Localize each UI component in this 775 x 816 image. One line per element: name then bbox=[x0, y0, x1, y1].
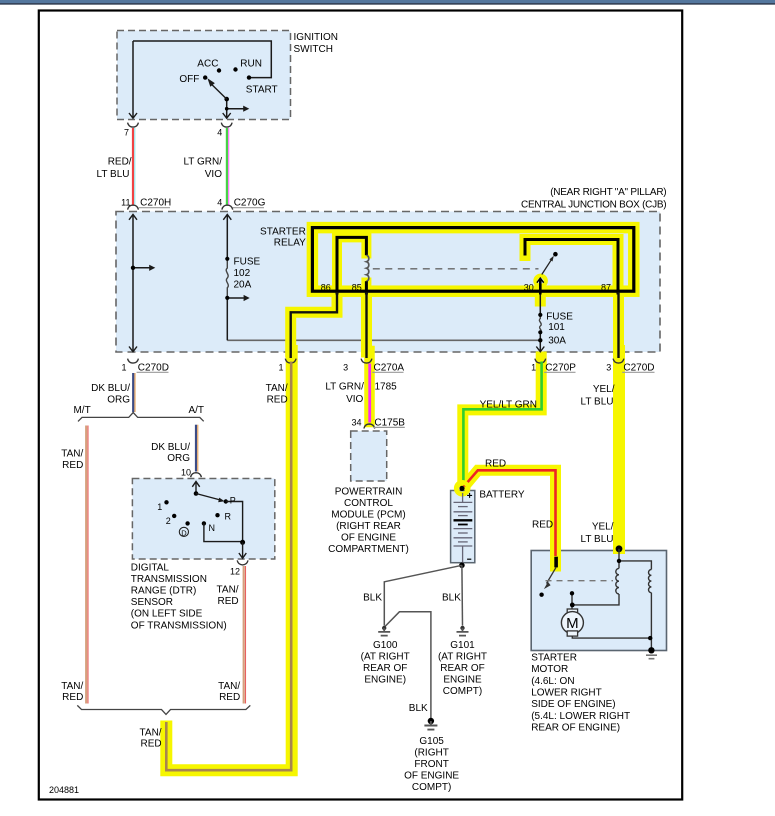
svg-text:MOTOR: MOTOR bbox=[531, 664, 568, 675]
wire BLK: battery neg to G101 bbox=[461, 565, 464, 625]
wire: branch arrow at junction bbox=[133, 267, 150, 269]
battery plates bbox=[454, 493, 473, 563]
wire: pin 87 to 3 C270D bbox=[617, 292, 619, 358]
svg-text:REAR OF: REAR OF bbox=[440, 663, 484, 674]
contact 2 bbox=[172, 514, 176, 518]
motor M bbox=[561, 612, 583, 634]
central junction box (CJB) bbox=[116, 212, 660, 353]
highlight: YEL/LT GRN wire C270P to battery bbox=[463, 357, 541, 482]
svg-text:COMPARTMENT): COMPARTMENT) bbox=[328, 544, 409, 555]
svg-text:DK BLU/: DK BLU/ bbox=[151, 442, 190, 453]
arrowhead: pin 10 entry up bbox=[192, 482, 199, 487]
contact ACC bbox=[217, 68, 221, 72]
relay pin 30 stub with arrow bbox=[539, 280, 542, 295]
svg-text:204881: 204881 bbox=[49, 785, 79, 795]
switch pivot bbox=[224, 97, 229, 102]
starter solenoid wiring bbox=[572, 549, 651, 650]
svg-text:1785: 1785 bbox=[375, 381, 398, 392]
svg-text:87: 87 bbox=[601, 282, 611, 292]
arrowhead: fuse102 branch right bbox=[244, 295, 250, 301]
wire TAN/RED (M/T branch) bbox=[85, 426, 87, 704]
svg-text:ACC: ACC bbox=[197, 59, 218, 70]
connector 12 (DTR exit, smile) bbox=[237, 560, 248, 565]
wire: junction to pin 12 with arrow bbox=[242, 542, 244, 557]
relay actuation dashed link bbox=[373, 268, 539, 270]
highlight: battery positive ring bbox=[457, 483, 468, 494]
svg-text:30: 30 bbox=[524, 282, 534, 292]
brace: M/T / A/T split bbox=[78, 413, 204, 422]
solenoid open contact bbox=[539, 593, 543, 597]
highlight: pin 85 wire to 3 C270A bbox=[361, 292, 372, 352]
svg-text:SENSOR: SENSOR bbox=[131, 597, 173, 608]
svg-text:TAN/: TAN/ bbox=[266, 383, 288, 394]
node: junction fuse101 output bbox=[538, 338, 542, 342]
svg-text:1: 1 bbox=[278, 362, 283, 372]
svg-text:LT BLU: LT BLU bbox=[581, 397, 614, 408]
arrowhead: CJB exits down bbox=[129, 347, 137, 352]
svg-text:34: 34 bbox=[351, 417, 361, 427]
wire: pin 86 to connector 1 bbox=[291, 292, 337, 358]
svg-text:YEL/LT GRN: YEL/LT GRN bbox=[480, 399, 537, 410]
arrowhead: pivot branch right bbox=[243, 106, 249, 112]
svg-text:G101: G101 bbox=[450, 640, 475, 651]
svg-text:C270A: C270A bbox=[374, 362, 405, 373]
svg-text:D: D bbox=[181, 528, 187, 537]
contact OFF bbox=[203, 75, 207, 79]
svg-text:(NEAR RIGHT "A" PILLAR): (NEAR RIGHT "A" PILLAR) bbox=[550, 187, 666, 198]
relay movable contact arm bbox=[542, 260, 552, 275]
solenoid dashed link bbox=[546, 580, 614, 582]
relay switch section frame bbox=[525, 240, 618, 295]
wire: pivot branch arrow right bbox=[227, 108, 244, 110]
motor brush bottom bbox=[567, 631, 577, 636]
svg-text:COMPT): COMPT) bbox=[412, 782, 451, 793]
svg-text:SIDE OF ENGINE): SIDE OF ENGINE) bbox=[531, 699, 615, 710]
svg-text:CONTROL: CONTROL bbox=[344, 498, 393, 509]
ground G105 bbox=[428, 718, 434, 724]
connector 34 C175B (PCM entry, frown) bbox=[364, 424, 375, 429]
svg-text:(RIGHT REAR: (RIGHT REAR bbox=[336, 521, 401, 532]
wire: bus from fuse 102 to fuse 101 output bbox=[227, 339, 540, 341]
svg-text:LT BLU: LT BLU bbox=[581, 534, 614, 545]
wire: switch pivot down to box edge bbox=[226, 99, 228, 118]
svg-text:P: P bbox=[230, 495, 236, 505]
ground: starter case bbox=[648, 647, 654, 653]
svg-text:RED: RED bbox=[219, 692, 240, 703]
wire: P to output bbox=[226, 502, 243, 543]
svg-text:C175B: C175B bbox=[374, 417, 405, 428]
svg-text:4: 4 bbox=[217, 128, 222, 138]
svg-text:4: 4 bbox=[217, 198, 222, 208]
svg-text:LOWER RIGHT: LOWER RIGHT bbox=[531, 688, 602, 699]
svg-text:REAR OF: REAR OF bbox=[363, 663, 407, 674]
wire RED core (battery to solenoid) bbox=[464, 470, 556, 556]
PCM box bbox=[351, 431, 387, 481]
svg-text:N: N bbox=[209, 523, 216, 533]
wire: N to output bbox=[204, 523, 243, 541]
svg-text:(ON LEFT SIDE: (ON LEFT SIDE bbox=[131, 609, 203, 620]
wire LT GRN/VIO core to PCM (magenta) bbox=[368, 364, 371, 423]
svg-text:12: 12 bbox=[230, 567, 240, 577]
ignition wiper arm bbox=[212, 84, 227, 99]
battery plus sign bbox=[467, 493, 472, 498]
svg-text:RED: RED bbox=[485, 458, 506, 469]
circled D bbox=[179, 527, 188, 536]
svg-text:M/T: M/T bbox=[73, 405, 90, 416]
svg-text:RED: RED bbox=[532, 519, 553, 530]
svg-text:11: 11 bbox=[121, 198, 130, 208]
svg-text:FUSE: FUSE bbox=[546, 312, 573, 323]
contact P bbox=[224, 499, 228, 503]
wire BLK: G100 node to G105 bbox=[385, 612, 431, 718]
svg-text:POWERTRAIN: POWERTRAIN bbox=[335, 486, 403, 497]
svg-text:ORG: ORG bbox=[107, 394, 130, 405]
svg-text:85: 85 bbox=[352, 282, 362, 292]
wire: ignition feed inside box (left leg + top run to START) bbox=[133, 41, 271, 78]
connector 1 (TAN/RED) bbox=[285, 359, 296, 364]
node: fixed motor contact bbox=[570, 591, 574, 595]
highlight: LT GRN/VIO wire C270A to PCM bbox=[364, 351, 375, 422]
svg-text:RED: RED bbox=[140, 739, 161, 750]
ground G101 bbox=[460, 626, 464, 630]
arrowhead: CJB entry arrows up bbox=[129, 214, 137, 219]
svg-text:BATTERY: BATTERY bbox=[479, 490, 525, 501]
svg-text:LT GRN/: LT GRN/ bbox=[325, 381, 364, 392]
wire LT GRN/VIO (pin 4 to 4 C270G) bbox=[226, 128, 228, 205]
highlight: RED wire battery to solenoid bbox=[466, 470, 555, 566]
svg-text:CENTRAL JUNCTION BOX (CJB): CENTRAL JUNCTION BOX (CJB) bbox=[521, 200, 666, 211]
highlight: YEL/LT BLU wire 3 C270D to starter bbox=[613, 351, 625, 548]
node: ignition pivot branch bbox=[225, 107, 229, 111]
svg-text:TRANSMISSION: TRANSMISSION bbox=[131, 574, 207, 585]
svg-text:20A: 20A bbox=[234, 279, 252, 290]
highlight: relay switch section bbox=[525, 240, 618, 292]
svg-text:C270H: C270H bbox=[140, 198, 171, 209]
ground G100 bbox=[382, 626, 386, 630]
solenoid movable arm bbox=[547, 567, 557, 583]
highlight: relay pin 30 contact ring bbox=[535, 276, 545, 286]
wire: branch arrow at fuse 102 output bbox=[227, 297, 244, 299]
wire: fuse 102 bottom lead down bbox=[226, 298, 228, 340]
relay outline bbox=[312, 228, 633, 292]
wire YEL/LT GRN core (green) bbox=[463, 362, 541, 483]
battery negative node bbox=[459, 563, 465, 569]
svg-text:STARTER: STARTER bbox=[531, 652, 577, 663]
svg-text:RUN: RUN bbox=[240, 59, 262, 70]
svg-text:YEL/: YEL/ bbox=[593, 384, 615, 395]
wire: RED/LT BLU feed inside CJB bbox=[132, 215, 134, 352]
connector pin 4 (ignition exit) bbox=[221, 123, 232, 128]
svg-text:R: R bbox=[225, 512, 232, 522]
svg-text:LT GRN/: LT GRN/ bbox=[183, 157, 222, 168]
svg-text:YEL/: YEL/ bbox=[592, 522, 614, 533]
svg-text:ORG: ORG bbox=[167, 453, 190, 464]
wire: ignition left leg down bbox=[132, 41, 134, 118]
svg-text:RED: RED bbox=[62, 460, 83, 471]
svg-text:MODULE (PCM): MODULE (PCM) bbox=[331, 509, 405, 520]
connector 11 C270H (CJB entry, frown) bbox=[128, 205, 139, 210]
node: solenoid coil tap bbox=[617, 559, 621, 563]
svg-text:RANGE (DTR): RANGE (DTR) bbox=[131, 586, 197, 597]
svg-text:G100: G100 bbox=[373, 640, 398, 651]
svg-text:ENGINE: ENGINE bbox=[443, 674, 482, 685]
wire: pin 85 to 3 C270A bbox=[365, 292, 367, 358]
highlight: starter relay outline bbox=[312, 228, 633, 292]
contact RUN bbox=[233, 67, 237, 71]
highlight: battery positive ring (over wires) bbox=[456, 482, 468, 494]
brace: TAN/RED merge bbox=[77, 705, 250, 714]
svg-text:TAN/: TAN/ bbox=[61, 681, 83, 692]
connector pin 7 (ignition exit, smile) bbox=[128, 123, 139, 128]
svg-text:(4.6L: ON: (4.6L: ON bbox=[531, 676, 574, 687]
svg-text:(AT RIGHT: (AT RIGHT bbox=[361, 652, 410, 663]
wire: fuse 102 top lead bbox=[226, 215, 228, 259]
svg-text:ENGINE): ENGINE) bbox=[364, 674, 406, 685]
svg-text:BLK: BLK bbox=[409, 703, 428, 714]
svg-text:SWITCH: SWITCH bbox=[294, 44, 333, 55]
svg-text:STARTER: STARTER bbox=[260, 227, 306, 238]
svg-text:(RIGHT: (RIGHT bbox=[414, 748, 448, 759]
svg-text:2: 2 bbox=[166, 516, 171, 526]
contact N bbox=[202, 521, 206, 525]
wire TAN/RED (DTR pin 12 down) bbox=[243, 566, 245, 704]
highlight: relay coil branch (pin 86 up-over to coil top) bbox=[337, 237, 366, 297]
ignition switch box bbox=[117, 31, 291, 120]
svg-text:RED: RED bbox=[62, 692, 83, 703]
DTR selector arm to P bbox=[196, 494, 220, 500]
highlight: relay coil bottom to pin 85 bbox=[361, 283, 371, 298]
wire DK BLU/ORG (A/T branch) bbox=[195, 425, 197, 472]
starter motor box bbox=[531, 551, 666, 651]
svg-text:BLK: BLK bbox=[442, 593, 461, 604]
highlight: TAN/RED wire C270D down right column bbox=[166, 351, 291, 770]
highlight: pin 87 wire to 3 C270D bbox=[613, 292, 624, 352]
svg-text:30A: 30A bbox=[548, 335, 566, 346]
connector 1 C270P bbox=[535, 359, 546, 364]
arrowhead: ignition outputs down (open V) bbox=[129, 113, 544, 352]
motor brush top bbox=[567, 609, 577, 614]
svg-text:3: 3 bbox=[343, 362, 348, 372]
relay coil to pin 85 bbox=[365, 281, 368, 294]
svg-text:BLK: BLK bbox=[363, 593, 382, 604]
fuse 102 element bbox=[226, 259, 228, 299]
svg-text:TAN/: TAN/ bbox=[140, 727, 162, 738]
svg-text:OF ENGINE: OF ENGINE bbox=[341, 532, 396, 543]
svg-text:LT BLU: LT BLU bbox=[97, 169, 130, 180]
svg-text:C270G: C270G bbox=[234, 198, 266, 209]
wire RED/LT BLU (pin 7 to 11 C270H) bbox=[132, 128, 134, 205]
svg-text:DIGITAL: DIGITAL bbox=[131, 562, 170, 573]
relay fixed contact bbox=[553, 252, 558, 257]
DTR sensor box bbox=[132, 479, 274, 560]
svg-text:(5.4L: LOWER RIGHT: (5.4L: LOWER RIGHT bbox=[531, 711, 630, 722]
svg-text:102: 102 bbox=[234, 268, 251, 279]
svg-text:3: 3 bbox=[606, 362, 611, 372]
svg-text:RED/: RED/ bbox=[108, 157, 132, 168]
connector 3 C270D (right) bbox=[613, 359, 624, 364]
svg-text:FUSE: FUSE bbox=[234, 256, 261, 267]
battery positive node bbox=[459, 486, 464, 491]
connector 10 (DTR entry, frown) bbox=[191, 473, 202, 478]
svg-text:COMPT): COMPT) bbox=[443, 686, 482, 697]
node: DTR output junction bbox=[240, 540, 245, 545]
node: C270H feed junction bbox=[131, 266, 135, 270]
wire BLK: battery neg to G100 bbox=[384, 565, 462, 625]
svg-text:TAN/: TAN/ bbox=[61, 449, 83, 460]
solenoid contact bar (from RED) bbox=[554, 557, 558, 568]
svg-text:A/T: A/T bbox=[188, 405, 204, 416]
contact 1 bbox=[164, 500, 168, 504]
svg-text:7: 7 bbox=[124, 128, 129, 138]
svg-text:OF TRANSMISSION): OF TRANSMISSION) bbox=[131, 620, 227, 631]
svg-text:C270D: C270D bbox=[623, 362, 654, 373]
svg-text:OFF: OFF bbox=[179, 74, 199, 85]
battery minus sign bbox=[467, 558, 471, 560]
arrowhead: C270H branch right bbox=[149, 265, 155, 271]
highlight: pin 86 wire to connector 1 C270D bbox=[291, 292, 337, 352]
connector 3 C270A bbox=[361, 359, 372, 364]
svg-text:VIO: VIO bbox=[346, 394, 363, 405]
svg-text:G105: G105 bbox=[419, 736, 444, 747]
svg-text:TAN/: TAN/ bbox=[217, 585, 239, 596]
hold-in coil bbox=[649, 570, 652, 593]
svg-text:IGNITION: IGNITION bbox=[294, 32, 338, 43]
svg-text:REAR OF ENGINE): REAR OF ENGINE) bbox=[531, 723, 620, 734]
svg-text:VIO: VIO bbox=[205, 169, 222, 180]
svg-text:(AT RIGHT: (AT RIGHT bbox=[438, 652, 487, 663]
svg-text:101: 101 bbox=[548, 322, 565, 333]
top toolbar bar bbox=[0, 0, 775, 3]
contact START bbox=[247, 75, 251, 79]
fuse 101 element bbox=[539, 315, 541, 333]
svg-text:1: 1 bbox=[121, 362, 126, 372]
svg-text:M: M bbox=[566, 615, 579, 632]
node: coil/ground junction bbox=[648, 636, 652, 640]
node: motor/coil junction bbox=[570, 603, 575, 608]
svg-text:RED: RED bbox=[217, 596, 238, 607]
svg-text:DK BLU/: DK BLU/ bbox=[91, 383, 130, 394]
relay coil branch 86 bbox=[337, 237, 366, 294]
highlight: pin 30 stub below relay bbox=[535, 292, 546, 301]
svg-text:FRONT: FRONT bbox=[414, 759, 448, 770]
svg-text:RED: RED bbox=[267, 395, 288, 406]
wire DK BLU/ORG (1 C270D to brace) bbox=[132, 373, 134, 412]
svg-text:10: 10 bbox=[181, 468, 191, 478]
svg-text:TAN/: TAN/ bbox=[218, 681, 240, 692]
svg-text:86: 86 bbox=[321, 282, 331, 292]
svg-text:RELAY: RELAY bbox=[274, 237, 306, 248]
svg-text:START: START bbox=[246, 84, 278, 95]
svg-text:C270D: C270D bbox=[138, 362, 169, 373]
svg-text:1: 1 bbox=[531, 362, 536, 372]
contact R bbox=[215, 513, 219, 517]
connector 4 C270G (CJB entry) bbox=[222, 205, 233, 210]
pull-in coil bbox=[616, 568, 619, 594]
svg-text:1: 1 bbox=[157, 502, 162, 512]
svg-text:C270P: C270P bbox=[545, 362, 576, 373]
wire: merged TAN/RED core (highlighted path) bbox=[166, 362, 291, 771]
wire: fuse 101 leads bbox=[539, 292, 541, 351]
svg-text:OF ENGINE: OF ENGINE bbox=[404, 770, 459, 781]
battery box bbox=[451, 491, 475, 563]
contact above D bbox=[185, 521, 189, 525]
DTR pivot node bbox=[194, 491, 199, 496]
node: YEL/LT BLU at starter bbox=[616, 545, 623, 552]
connector 1 C270D (left) bbox=[128, 359, 139, 364]
relay coil bbox=[366, 255, 368, 281]
